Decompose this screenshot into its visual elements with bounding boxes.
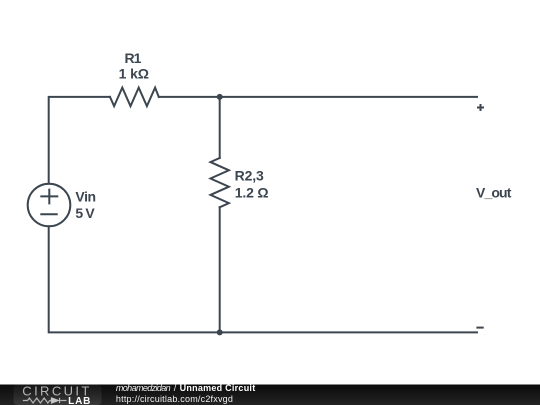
svg-text:mohamedzidan: mohamedzidan [116, 383, 171, 393]
V1 plus sign [41, 190, 57, 204]
svg-text:R2,3: R2,3 [235, 168, 264, 184]
wire node B to output - terminal [220, 331, 477, 333]
svg-text:R1: R1 [125, 50, 142, 66]
footer bar [0, 385, 540, 405]
svg-text:1 kΩ: 1 kΩ [119, 66, 149, 82]
resistor R2,3 [211, 158, 229, 207]
resistor R1 [110, 88, 159, 107]
svg-text:V_out: V_out [476, 184, 512, 200]
output + terminal mark [477, 104, 484, 111]
svg-text:Unnamed Circuit: Unnamed Circuit [180, 383, 256, 393]
svg-text:1.2 Ω: 1.2 Ω [235, 184, 269, 200]
svg-text:LAB: LAB [68, 396, 90, 405]
V1 minus sign [41, 213, 56, 215]
output - terminal mark [476, 327, 483, 329]
wire R2,3 down to node B [219, 207, 221, 332]
CircuitLab logo: diode symbol [51, 398, 59, 404]
voltage source V1 circle [28, 184, 71, 227]
node B junction dot [217, 329, 223, 335]
wire node A down to R2,3 [219, 97, 221, 158]
CircuitLab logo: resistor-diode line [23, 398, 67, 403]
wire node B left and up to source - terminal [49, 226, 220, 332]
wire R1 to node A [159, 96, 220, 98]
node A junction dot [217, 94, 223, 100]
svg-text:Vin: Vin [75, 189, 96, 205]
wire node A to output + terminal [220, 96, 477, 98]
wire source + terminal up and right to R1 [49, 97, 110, 184]
svg-text:5 V: 5 V [75, 205, 95, 221]
footer logo capsule background [14, 385, 102, 405]
svg-text:http://circuitlab.com/c2fxvgd: http://circuitlab.com/c2fxvgd [116, 394, 233, 404]
